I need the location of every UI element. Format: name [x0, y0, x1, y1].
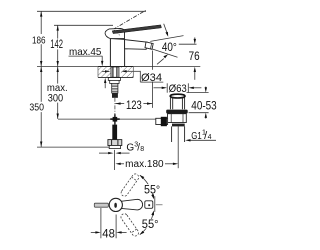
svg-text:186: 186	[32, 34, 46, 46]
svg-text:76: 76	[189, 51, 200, 63]
svg-text:300: 300	[48, 93, 63, 105]
svg-text:8: 8	[140, 146, 144, 153]
svg-text:4: 4	[208, 134, 212, 141]
svg-text:G: G	[126, 143, 134, 154]
svg-text:48: 48	[102, 226, 115, 240]
svg-text:55°: 55°	[144, 182, 160, 196]
svg-text:123: 123	[126, 98, 142, 112]
svg-text:142: 142	[50, 39, 63, 51]
svg-text:G1: G1	[191, 130, 202, 142]
svg-text:40-53: 40-53	[191, 99, 216, 112]
svg-text:max.45: max.45	[69, 47, 102, 58]
svg-text:Ø34: Ø34	[141, 72, 162, 84]
svg-text:350: 350	[29, 102, 44, 114]
svg-text:55°: 55°	[142, 217, 159, 231]
svg-text:Ø63: Ø63	[169, 83, 187, 95]
svg-text:40°: 40°	[162, 40, 177, 54]
svg-text:max.180: max.180	[125, 159, 164, 170]
